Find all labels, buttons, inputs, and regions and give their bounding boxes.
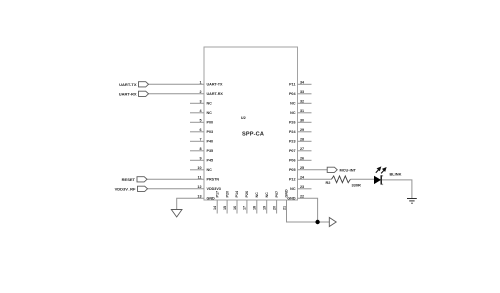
LED emission arrows	[376, 167, 386, 173]
pin 19 stub	[266, 200, 268, 214]
svg-text:5: 5	[199, 118, 201, 122]
svg-text:31: 31	[300, 109, 304, 113]
pin 29 stub	[298, 131, 312, 133]
pin 28 stub	[298, 140, 312, 142]
wire resistor to LED	[350, 178, 374, 180]
svg-text:P14: P14	[235, 190, 239, 198]
svg-text:18: 18	[253, 206, 257, 210]
earth ground	[407, 199, 417, 204]
left pin numbers	[197, 80, 202, 198]
pin 33 stub	[298, 93, 312, 95]
svg-text:NC: NC	[207, 168, 213, 172]
junction dot pin21/pin22 gnd	[315, 220, 319, 224]
pin 9 stub	[190, 159, 204, 161]
port UART-TX	[139, 82, 149, 87]
svg-text:VDD3V_RF: VDD3V_RF	[115, 186, 136, 191]
svg-text:UART-RX: UART-RX	[119, 91, 137, 96]
svg-text:15: 15	[223, 206, 227, 210]
pin 25 wire to MCU-INT port	[298, 169, 328, 171]
svg-text:9: 9	[199, 156, 201, 160]
svg-text:P17: P17	[215, 191, 219, 198]
svg-text:P24: P24	[289, 130, 297, 134]
pin 7 stub	[190, 140, 204, 142]
svg-text:P26: P26	[289, 121, 296, 125]
svg-text:UART-TX: UART-TX	[119, 82, 137, 87]
pin 16 stub	[236, 200, 238, 214]
pin 3 stub	[190, 102, 204, 104]
pin 2 wire	[149, 93, 205, 95]
svg-text:PRSTN: PRSTN	[207, 178, 220, 182]
svg-text:29: 29	[300, 128, 304, 132]
resistor R2	[332, 176, 351, 183]
bottom pin numbers (rotated)	[213, 205, 286, 210]
svg-text:P06: P06	[289, 159, 296, 163]
pin 24 wire to resistor	[298, 178, 332, 180]
svg-text:28: 28	[300, 137, 304, 141]
svg-text:32: 32	[300, 99, 304, 103]
port MCU-INT	[327, 167, 337, 172]
svg-text:P07: P07	[275, 191, 279, 198]
pin 15 stub	[226, 200, 228, 214]
svg-text:23: 23	[300, 185, 304, 189]
port VDD3V_RF	[138, 186, 148, 191]
pin 20 stub	[276, 200, 278, 214]
svg-text:P20: P20	[225, 191, 229, 198]
svg-text:8: 8	[199, 147, 201, 151]
pin 18 stub	[256, 200, 258, 214]
svg-text:34: 34	[300, 80, 305, 84]
pin 5 stub	[190, 121, 204, 123]
port RESET	[137, 177, 147, 182]
svg-text:U2: U2	[241, 116, 246, 120]
svg-text:BLINK: BLINK	[390, 172, 402, 177]
svg-text:33: 33	[300, 90, 304, 94]
svg-text:MCU-INT: MCU-INT	[340, 167, 357, 172]
svg-text:2: 2	[199, 90, 201, 94]
svg-text:GND: GND	[207, 197, 216, 201]
svg-text:4: 4	[199, 109, 202, 113]
pin 4 stub	[190, 112, 204, 114]
svg-text:330R: 330R	[352, 183, 361, 188]
svg-text:P45: P45	[207, 159, 214, 163]
svg-text:P04: P04	[289, 92, 297, 96]
svg-text:P26: P26	[245, 191, 249, 198]
svg-text:7: 7	[199, 137, 201, 141]
svg-text:26: 26	[300, 156, 304, 160]
pin 22 wire to gnd net	[298, 198, 318, 222]
svg-text:10: 10	[197, 166, 201, 170]
svg-text:P11: P11	[289, 83, 295, 87]
svg-text:11: 11	[198, 175, 202, 179]
svg-text:P07: P07	[289, 149, 296, 153]
svg-text:NC: NC	[290, 102, 296, 106]
pin 12 wire	[148, 188, 205, 190]
svg-text:25: 25	[300, 166, 304, 170]
svg-text:21: 21	[282, 206, 286, 210]
svg-text:P00: P00	[207, 121, 214, 125]
svg-text:UART-TX: UART-TX	[207, 83, 224, 87]
svg-text:16: 16	[233, 206, 237, 210]
svg-text:P05: P05	[289, 168, 296, 172]
left inside pin names	[207, 83, 224, 201]
svg-text:P40: P40	[207, 140, 214, 144]
ground arrow (pin13)	[171, 210, 182, 218]
pin 8 stub	[190, 150, 204, 152]
pin 31 stub	[298, 112, 312, 114]
pin 30 stub	[298, 121, 312, 123]
pin 27 stub	[298, 150, 312, 152]
svg-text:24: 24	[300, 175, 305, 179]
svg-text:19: 19	[263, 206, 267, 210]
pin 34 stub	[298, 83, 312, 85]
LED pin ticks	[381, 175, 384, 176]
ground arrow (bottom net)	[329, 218, 336, 227]
pin 10 stub	[190, 169, 204, 171]
svg-text:6: 6	[199, 128, 201, 132]
svg-text:1: 1	[199, 80, 201, 84]
svg-text:RESET: RESET	[122, 177, 136, 182]
svg-text:3: 3	[199, 99, 201, 103]
svg-text:NC: NC	[207, 102, 213, 106]
wire LED to ground	[382, 180, 412, 199]
pin 6 stub	[190, 131, 204, 133]
svg-text:NC: NC	[207, 111, 213, 115]
svg-text:P03: P03	[207, 130, 214, 134]
port UART-RX	[139, 91, 149, 96]
svg-text:27: 27	[300, 147, 304, 151]
svg-text:20: 20	[272, 206, 276, 210]
pin 13 wire to ground	[177, 198, 204, 209]
svg-text:SPP-CA: SPP-CA	[242, 132, 264, 138]
svg-text:P35: P35	[207, 149, 214, 153]
right pin numbers	[300, 80, 305, 198]
bottom inside pin names (rotated)	[215, 189, 288, 198]
svg-text:UART-RX: UART-RX	[207, 92, 224, 96]
svg-text:GND: GND	[285, 189, 289, 198]
pin 26 stub	[298, 159, 312, 161]
pin 21 wire to gnd net	[287, 200, 330, 222]
svg-text:13: 13	[197, 194, 201, 198]
svg-text:NC: NC	[255, 192, 259, 198]
pin 23 stub	[298, 188, 312, 190]
pin 1 wire	[149, 83, 205, 85]
LED D1	[374, 176, 381, 184]
svg-text:P12: P12	[289, 178, 296, 182]
pin 32 stub	[298, 102, 312, 104]
pin 14 stub	[216, 200, 218, 214]
svg-text:NC: NC	[290, 187, 296, 191]
IC U2 body	[204, 47, 298, 200]
svg-text:NC: NC	[265, 192, 269, 198]
svg-text:30: 30	[300, 118, 304, 122]
pin 11 wire	[147, 178, 204, 180]
svg-text:P23: P23	[289, 140, 296, 144]
svg-text:NC: NC	[290, 111, 296, 115]
svg-text:12: 12	[197, 185, 201, 189]
right inside pin names	[287, 83, 296, 201]
svg-text:14: 14	[213, 205, 217, 210]
pin 17 stub	[246, 200, 248, 214]
svg-text:17: 17	[243, 206, 247, 210]
svg-text:VDD3V3: VDD3V3	[207, 187, 221, 191]
svg-text:R2: R2	[326, 180, 332, 185]
svg-text:22: 22	[300, 194, 304, 198]
